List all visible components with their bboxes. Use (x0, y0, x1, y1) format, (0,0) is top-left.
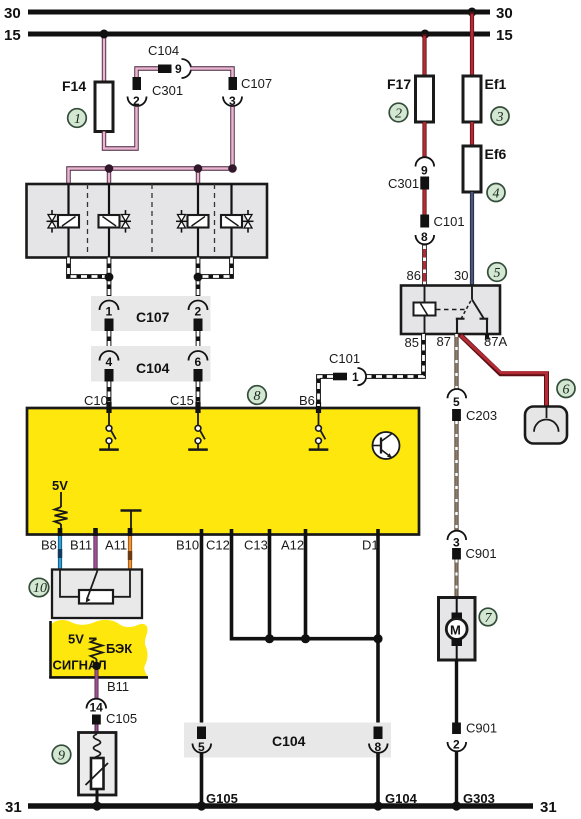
wire: Ef1 to Ef6 (red) (470, 122, 474, 146)
svg-text:C107: C107 (241, 76, 272, 91)
callout 1 (68, 109, 87, 128)
wire: relay 87A side to horn (red) (460, 335, 547, 408)
connector strip C107 (91, 296, 211, 331)
svg-text:31: 31 (540, 799, 557, 816)
wire: ECU B8 to sensor (blue) (58, 528, 63, 570)
wire: C301 pin2 up to C104 pin 9 (pink) (137, 69, 159, 78)
svg-text:10: 10 (33, 581, 47, 596)
injector 3 (valve left) (176, 184, 209, 258)
svg-text:C104: C104 (272, 733, 306, 749)
callout 3 (491, 107, 509, 125)
junction on bus 30 at Ef1 (468, 8, 477, 17)
wire: motor to C901 pin 2 (black) (455, 660, 458, 723)
connector strip C104 (upper) (91, 346, 211, 382)
node SIGNAL (92, 662, 100, 670)
ECU control unit box (27, 408, 419, 535)
svg-text:30: 30 (4, 5, 21, 22)
callout 4 (487, 184, 505, 202)
svg-text:6: 6 (195, 355, 202, 369)
svg-text:15: 15 (496, 27, 513, 44)
BEK controller fragment (yellow blob) (49, 620, 148, 679)
ECU pin stub C15 (195, 402, 200, 413)
svg-text:87: 87 (437, 334, 451, 349)
junction on bus 15 at F17 (421, 30, 430, 39)
connector strip C104 (lower) (184, 723, 391, 758)
junction injectors 1+2 (105, 273, 114, 282)
ground G105 (197, 791, 238, 811)
fan relay box (401, 286, 500, 335)
ECU pin stub B6 (316, 402, 321, 413)
wire: C104 pin4 to ECU pin C10 (stripe) (84, 382, 109, 409)
svg-text:БЭК: БЭК (106, 641, 132, 656)
svg-text:M: M (450, 623, 461, 638)
wire: ECU C12 joining D1 net (black) (232, 529, 379, 639)
relay pin stub 87A (485, 334, 489, 340)
wire: C105 to coolant sensor (violet stub) (95, 725, 99, 733)
connector C107 socket 3 (223, 76, 272, 108)
svg-text:Ef6: Ef6 (485, 146, 507, 162)
wire: ECU D1 to C104 pin 8 (black) (376, 529, 380, 727)
C107 socket 2 (189, 301, 208, 332)
throttle position sensor box (10) (52, 570, 142, 619)
relay switch (30 / 87 / 87A) (456, 286, 488, 335)
svg-text:7: 7 (485, 611, 493, 626)
svg-text:G105: G105 (206, 791, 238, 806)
svg-text:85: 85 (405, 335, 419, 350)
svg-text:5: 5 (494, 266, 501, 281)
wire: C104 pin6 to ECU pin C15 (stripe) (170, 382, 198, 409)
fuse F17 (387, 76, 434, 122)
svg-text:B11: B11 (107, 679, 129, 694)
fan motor M (7) (439, 598, 476, 661)
svg-text:Ef1: Ef1 (485, 76, 507, 92)
svg-text:C12: C12 (206, 538, 230, 553)
junction on bus 31 (sensor) (92, 801, 101, 810)
connector C101 socket 1 (329, 351, 366, 385)
junction on bus 15 at F14 (100, 30, 109, 39)
fuse Ef6 (463, 146, 507, 192)
connector C901 pin 2 (448, 721, 498, 752)
wire: C301 to C101 (red) (422, 190, 426, 215)
svg-text:2: 2 (133, 94, 140, 108)
svg-text:C101: C101 (434, 214, 465, 229)
svg-text:C901: C901 (466, 721, 497, 736)
svg-text:C107: C107 (136, 309, 170, 325)
ECU internal switch 2 (from C15) (188, 410, 208, 450)
C104 pin 8 (369, 727, 388, 755)
svg-text:2: 2 (453, 738, 460, 752)
wire: relay 87 down to C203 (brown/white stripe) (454, 334, 458, 390)
svg-text:4: 4 (106, 355, 113, 369)
ECU bottom pin labels (41, 538, 379, 553)
svg-text:C101: C101 (329, 351, 360, 366)
wire: C101 pin1 to ECU B6 (black/white stripe) (299, 377, 333, 409)
ECU internal switch 1 (from C10) (99, 410, 119, 450)
svg-text:6: 6 (563, 383, 570, 398)
svg-text:B8: B8 (41, 538, 57, 553)
coolant temperature sensor box (9) (79, 733, 117, 796)
wire: C104 pin5 to ground G105 (200, 752, 204, 806)
svg-text:G104: G104 (385, 791, 418, 806)
sensor wiper arrow (86, 571, 98, 603)
svg-text:G303: G303 (463, 791, 495, 806)
svg-text:C13: C13 (244, 538, 268, 553)
svg-text:9: 9 (58, 749, 65, 764)
C104 socket 4 (100, 351, 119, 382)
wire: ECU B10 to C104 pin 5 (black) (200, 529, 204, 727)
svg-text:9: 9 (421, 164, 428, 178)
svg-text:C203: C203 (466, 408, 497, 423)
svg-text:14: 14 (90, 701, 104, 715)
connector C203 socket 5 (448, 389, 498, 423)
svg-text:1: 1 (106, 305, 113, 319)
svg-text:D1: D1 (362, 538, 379, 553)
wire: bus15 tap to fuse F14 (pink) (102, 34, 106, 82)
wire: sensor to ground bus 31 (96, 789, 99, 806)
wire: bus15 to F17 (red) (422, 34, 426, 76)
bus 30 (top) (4, 5, 513, 22)
wire: injectors 3+4 return (black/white stripe) to C107 pin 2 (198, 258, 232, 299)
C107 socket 1 (100, 301, 119, 332)
svg-text:A12: A12 (281, 538, 304, 553)
svg-text:5V: 5V (52, 478, 68, 493)
wire: injector feed rail (pink) (69, 169, 233, 187)
wire: C901 to fan motor (brown/white stripe) (455, 560, 459, 598)
relay actuating dashed link (436, 309, 467, 311)
svg-text:C104: C104 (136, 360, 170, 376)
callout 5 (488, 263, 507, 282)
wire: C101 socket 8 to relay pin 86 (red/white stripe) (422, 245, 427, 286)
svg-text:B6: B6 (299, 393, 315, 408)
wire: ECU B11 to sensor wiper (violet) (93, 528, 98, 570)
svg-text:B11: B11 (70, 538, 92, 553)
svg-text:4: 4 (493, 187, 500, 202)
injector 4 (valve right) (221, 184, 254, 258)
wire: relay 85 to C101 socket 1 (black/white stripe) (367, 334, 424, 377)
wire: C203 to C901 socket 3 (brown/white stripe) (454, 421, 458, 531)
fuse Ef1 (463, 76, 507, 122)
transistor Q (ECU driver) (373, 432, 400, 459)
svg-text:8: 8 (421, 230, 428, 244)
svg-text:F17: F17 (387, 76, 411, 92)
thermistor element (86, 758, 109, 789)
bus 31 (bottom ground) (5, 799, 557, 816)
svg-text:15: 15 (4, 27, 21, 44)
ground G303 (452, 791, 495, 811)
wire: C104 socket 9 to connector C107 pin 3 (pink) (190, 69, 233, 78)
callout 9 (52, 745, 71, 764)
connector C104 pin/socket 9 (148, 43, 191, 78)
ground G104 (373, 791, 417, 811)
svg-text:C901: C901 (466, 546, 497, 561)
sensor resistor track (60, 570, 130, 604)
svg-text:31: 31 (5, 799, 22, 816)
wire: Ef6 to relay pin 30 (slate blue) (470, 192, 474, 286)
wire: injectors 1+2 return (black/white stripe) to C107 pin 1 (69, 258, 110, 299)
svg-text:1: 1 (352, 370, 359, 384)
svg-text:2: 2 (395, 107, 402, 122)
junctions on ground net (265, 634, 383, 643)
svg-text:87A: 87A (484, 334, 507, 349)
svg-text:86: 86 (407, 268, 421, 283)
callout 10 (29, 578, 49, 596)
fuse F14 (62, 78, 113, 132)
wire: C107 socket 3 down to injector feed rail (pink) (230, 106, 234, 169)
wire: F17 to C301 socket 9 (red) (422, 122, 426, 158)
connector C301 socket 2 (128, 77, 184, 108)
svg-text:1: 1 (74, 112, 81, 127)
rail junctions (105, 164, 237, 173)
wire: C107 pin1 to C104 socket 4 (stripe) (107, 331, 112, 348)
ECU internal ground bar (to A11) (121, 511, 142, 534)
svg-text:2: 2 (195, 305, 202, 319)
svg-text:F14: F14 (62, 78, 86, 94)
svg-text:C10: C10 (84, 393, 108, 408)
BEK pull-up resistor (91, 639, 103, 663)
relay coil (414, 286, 436, 335)
wire: F14 to connector C301 pin 2 (pink) (104, 107, 137, 149)
wire: C104 pin8 to ground G104 (376, 752, 380, 806)
junction injectors 3+4 (194, 273, 203, 282)
connector C105 socket 14 (87, 699, 138, 726)
svg-text:9: 9 (175, 62, 182, 76)
callout 6 (557, 380, 575, 398)
callout 8 (248, 386, 267, 405)
connector C301 socket 9 (388, 157, 434, 191)
callout 7 (479, 608, 497, 626)
C104 pin 5 (193, 727, 212, 755)
svg-text:C15: C15 (170, 393, 194, 408)
horn (525, 407, 567, 444)
injector 1 (coil + nozzle valve, valve left) (47, 184, 80, 258)
relay pin labels 85 / 87 / 87A (405, 334, 508, 350)
svg-text:C104: C104 (148, 43, 179, 58)
svg-text:C301: C301 (152, 83, 183, 98)
relay pin labels 86 / 30 (407, 268, 469, 283)
wire: ECU C13 down to net (black) (268, 529, 272, 640)
svg-text:A11: A11 (105, 538, 127, 553)
injector 2 (valve right) (99, 184, 132, 258)
svg-text:3: 3 (496, 110, 504, 125)
svg-text:30: 30 (496, 5, 513, 22)
ECU internal 5V pull-up resistor (to B8) (52, 478, 68, 533)
svg-text:3: 3 (453, 536, 460, 550)
sensor spring lead (94, 734, 101, 763)
ECU internal switch 3 (from B6) (309, 410, 329, 450)
callout 2 (389, 103, 408, 122)
bus 15 (4, 27, 513, 44)
ECU pin stub C10 (106, 402, 111, 413)
connector C101 pin 8 (416, 214, 465, 244)
svg-text:C301: C301 (388, 176, 419, 191)
injector assembly box (27, 184, 268, 258)
svg-text:8: 8 (254, 389, 261, 404)
wire: ECU A11 to sensor (orange) (128, 528, 133, 570)
divider dashed lines (88, 184, 215, 258)
svg-text:B10: B10 (176, 538, 199, 553)
svg-text:5: 5 (453, 395, 460, 409)
wire: C901 socket 2 to ground G303 (455, 752, 458, 807)
svg-text:5V: 5V (68, 632, 84, 647)
wire: BEK signal B11 (violet) to C105 (97, 670, 130, 699)
wire: C107 pin2 to C104 socket 6 (stripe) (196, 331, 201, 348)
C104 socket 6 (189, 351, 208, 382)
wire: bus30 to Ef1 (red) (470, 12, 474, 76)
svg-text:C105: C105 (106, 711, 137, 726)
svg-text:30: 30 (454, 268, 468, 283)
connector C901 socket 3 (448, 531, 497, 561)
wire: ECU A12 down to net (black) (304, 529, 308, 640)
